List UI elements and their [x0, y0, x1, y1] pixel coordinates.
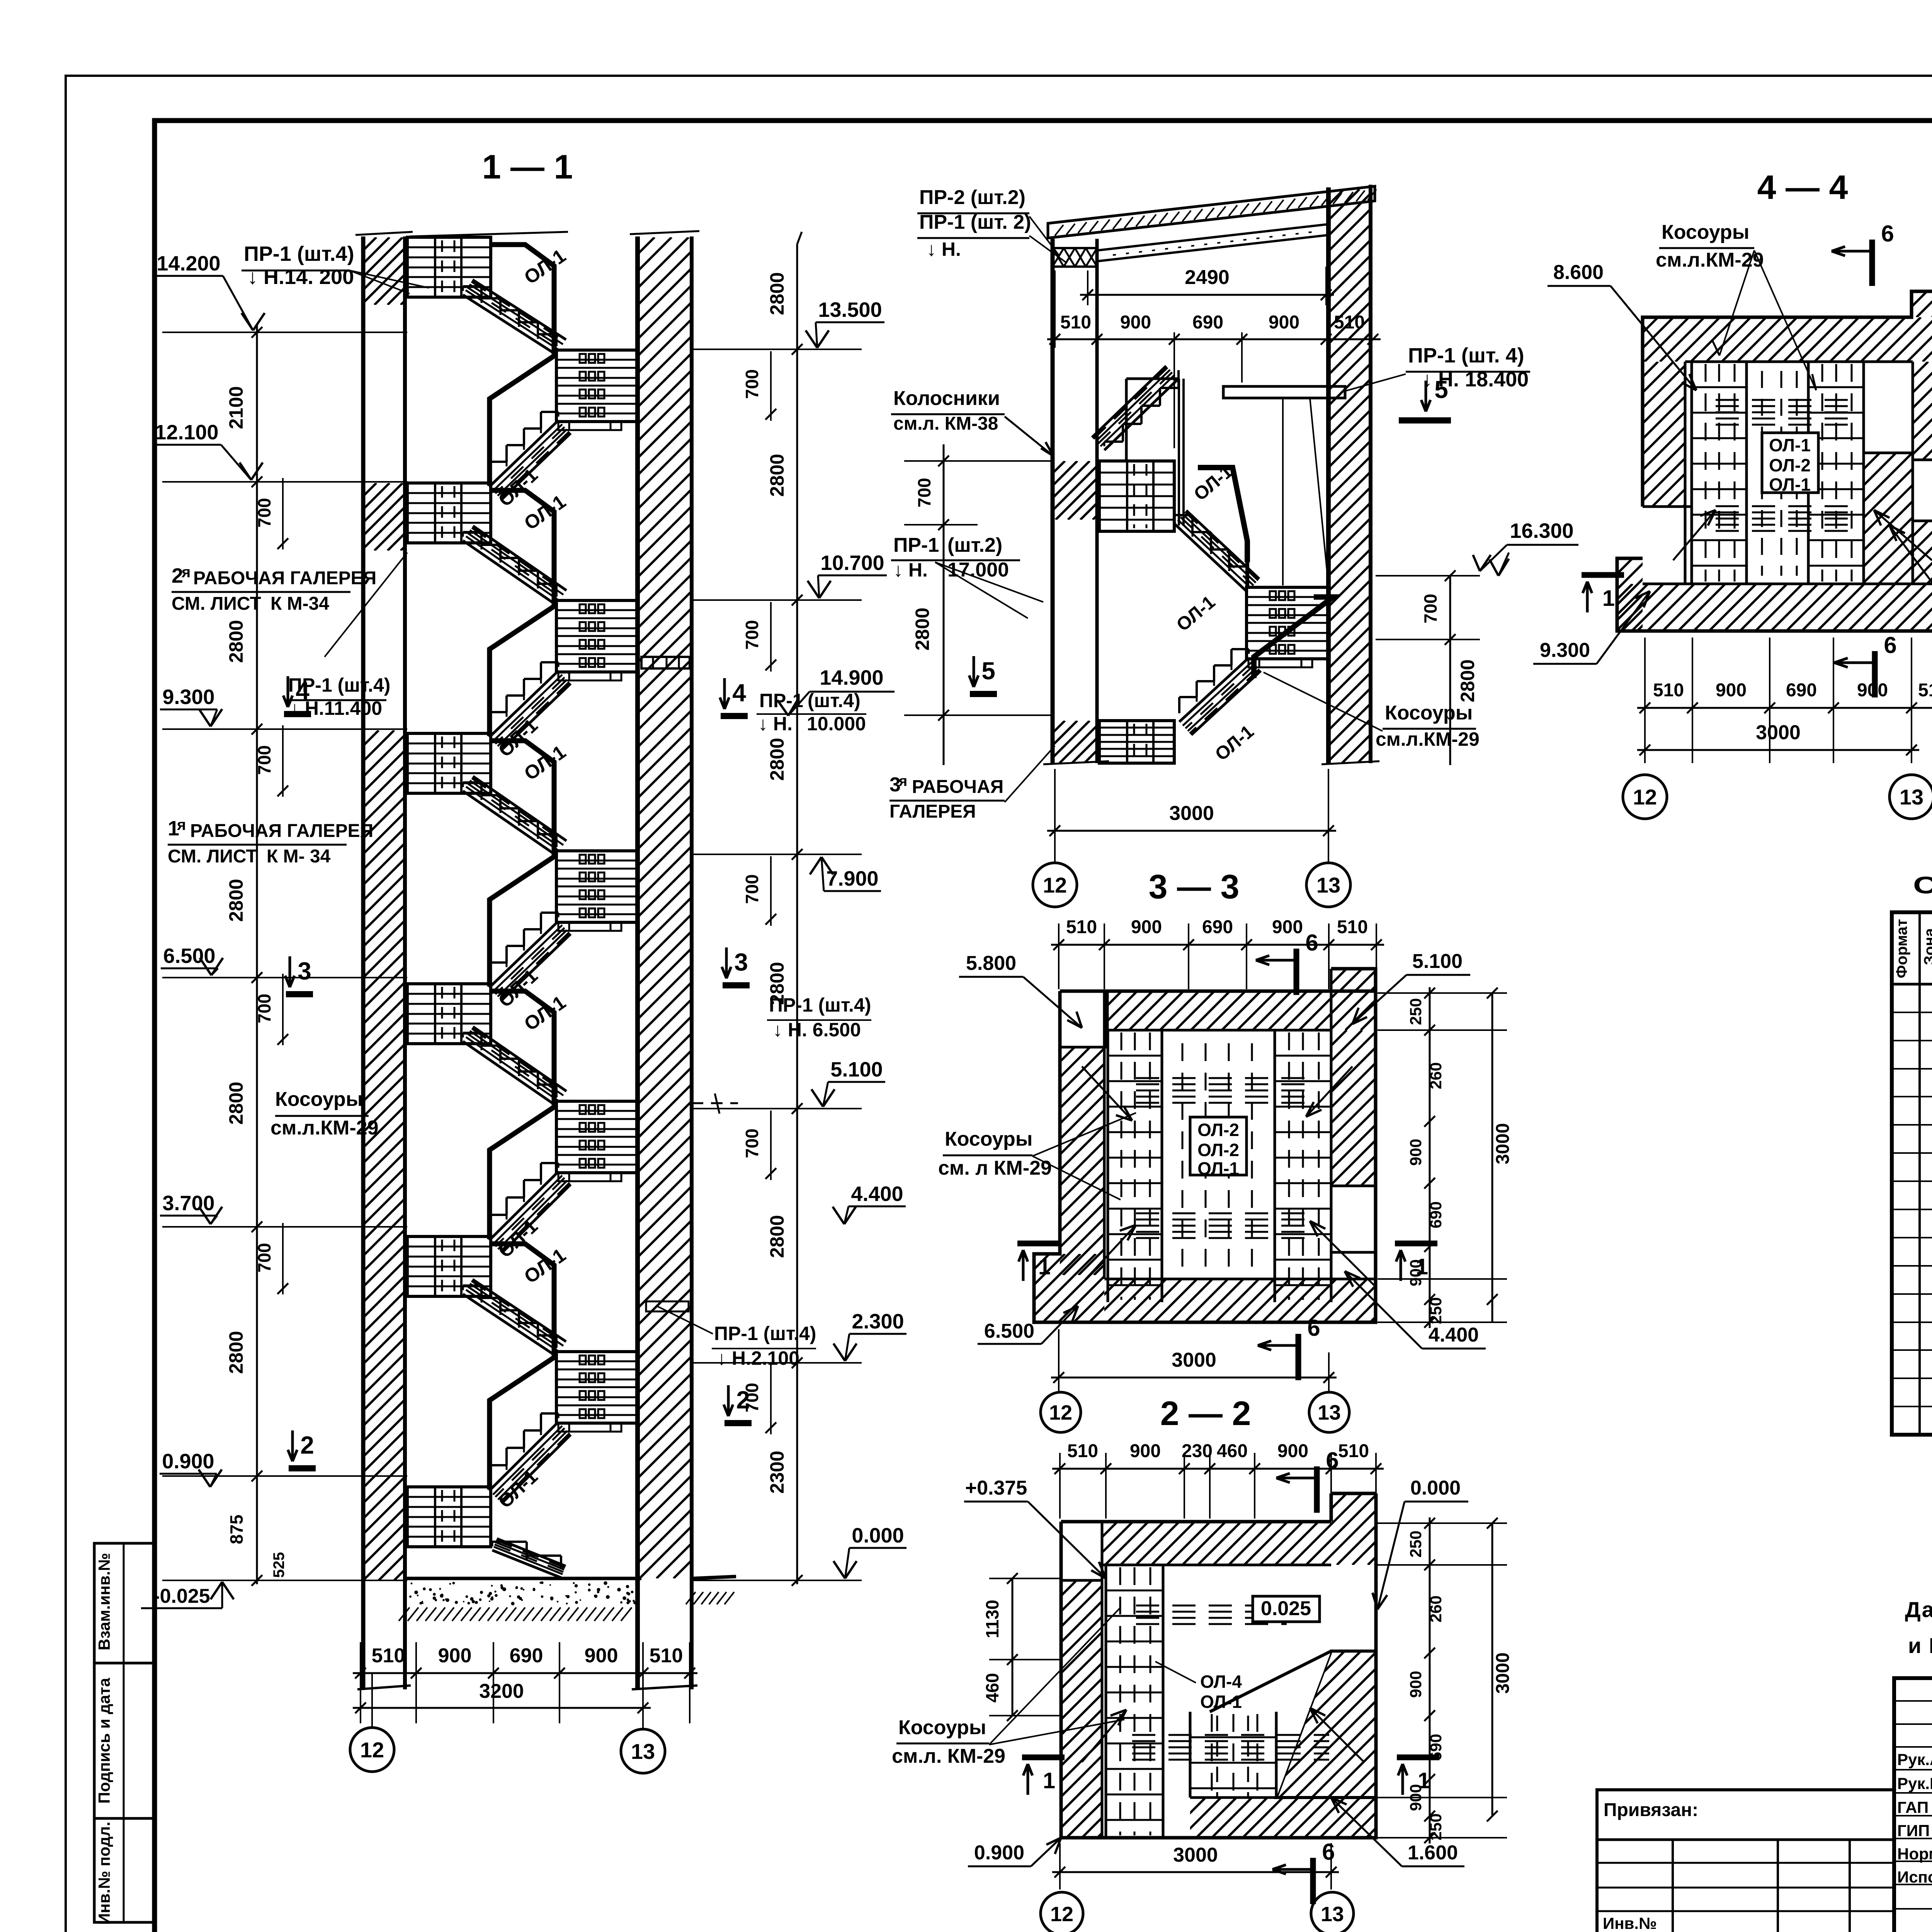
svg-text:см. л КМ-29: см. л КМ-29 — [938, 1157, 1052, 1179]
svg-text:510: 510 — [1067, 1441, 1098, 1461]
svg-text:4: 4 — [296, 677, 310, 705]
svg-text:510: 510 — [650, 1645, 683, 1667]
svg-text:я: я — [898, 773, 907, 789]
svg-text:РАБОЧАЯ ГАЛЕРЕЯ: РАБОЧАЯ ГАЛЕРЕЯ — [190, 821, 373, 841]
plan 2-2 interior leader arrows — [1082, 1066, 1132, 1121]
svg-text:1: 1 — [1043, 1768, 1055, 1793]
svg-text:2800: 2800 — [225, 1331, 247, 1374]
svg-text:690: 690 — [1427, 1201, 1445, 1228]
svg-text:ОЛ-1: ОЛ-1 — [1197, 1158, 1239, 1179]
svg-text:700: 700 — [742, 369, 762, 399]
16.300 leader arrow to 3-3 landing level — [1498, 553, 1509, 576]
svg-text:2: 2 — [736, 1386, 750, 1414]
svg-text:690: 690 — [1202, 917, 1233, 937]
svg-text:2 — 2: 2 — 2 — [1160, 1394, 1251, 1432]
svg-text:1.600: 1.600 — [1408, 1842, 1458, 1864]
svg-text:ОЛ-1: ОЛ-1 — [1769, 435, 1811, 455]
svg-text:↓ Н.: ↓ Н. — [893, 559, 928, 581]
svg-text:Данный чертеж рассматриват: Данный чертеж рассматривать совместно с … — [1905, 1597, 1932, 1622]
section 3-3 landing blocks — [1099, 461, 1174, 531]
plan 2-2 outline — [1107, 991, 1376, 1047]
svg-text:см.л.КМ-29: см.л.КМ-29 — [1656, 249, 1764, 271]
svg-text:3: 3 — [298, 957, 311, 985]
svg-text:13: 13 — [631, 1739, 655, 1764]
small ledge marks at gallery levels — [641, 657, 690, 668]
svg-text:ОЛ-2: ОЛ-2 — [1769, 455, 1811, 475]
title block staff table — [1894, 1678, 1932, 1932]
axis circle 12 section 1-1 — [350, 1728, 394, 1772]
svg-text:3.700: 3.700 — [162, 1192, 214, 1215]
plan 4-4 bottom dims — [1644, 638, 1646, 763]
svg-text:12: 12 — [1050, 1903, 1073, 1926]
svg-text:250: 250 — [1427, 1297, 1445, 1324]
svg-text:900: 900 — [1406, 1671, 1425, 1698]
svg-text:2490: 2490 — [1185, 266, 1230, 289]
svg-text:Рук.КБ-1: Рук.КБ-1 — [1897, 1774, 1932, 1793]
plan bottom top dim row — [1059, 1453, 1061, 1519]
svg-text:ГАП: ГАП — [1897, 1798, 1929, 1816]
svg-text:см.л. КМ-38: см.л. КМ-38 — [893, 413, 998, 434]
svg-text:К М- 34: К М- 34 — [267, 846, 331, 867]
section 1-1 bottom dimensions — [360, 1642, 361, 1723]
roof lower plate PR-2 — [1097, 224, 1329, 261]
svg-text:10.700: 10.700 — [820, 551, 884, 575]
svg-text:см.л.КМ-29: см.л.КМ-29 — [270, 1117, 379, 1139]
svg-text:5.100: 5.100 — [830, 1058, 883, 1081]
svg-text:3200: 3200 — [479, 1680, 524, 1702]
svg-text:РАБОЧАЯ ГАЛЕРЕЯ: РАБОЧАЯ ГАЛЕРЕЯ — [193, 568, 376, 588]
ground line and earth — [405, 1577, 641, 1580]
svg-text:9.300: 9.300 — [1540, 639, 1590, 662]
svg-text:0.900: 0.900 — [162, 1450, 214, 1473]
svg-text:700: 700 — [254, 994, 274, 1024]
svg-text:900: 900 — [1131, 917, 1162, 937]
svg-text:4.400: 4.400 — [1429, 1324, 1479, 1346]
plan bottom marks — [1314, 1466, 1320, 1513]
svg-text:700: 700 — [742, 874, 762, 904]
plan bottom dim 3000 and circles — [1059, 1843, 1061, 1889]
svg-text:700: 700 — [742, 620, 762, 650]
svg-text:1130: 1130 — [982, 1600, 1002, 1638]
svg-text:↓ Н.: ↓ Н. — [758, 713, 793, 735]
svg-text:Подпись и дата: Подпись и дата — [95, 1678, 113, 1804]
svg-text:ПР-1: ПР-1 — [893, 534, 939, 556]
svg-text:510: 510 — [1060, 312, 1091, 333]
svg-text:2.300: 2.300 — [852, 1310, 904, 1333]
svg-text:260: 260 — [1427, 1062, 1445, 1089]
plan bottom right chain — [1378, 1522, 1507, 1524]
plan 4-4 stair strips — [1690, 362, 1693, 584]
svg-text:700: 700 — [254, 1243, 274, 1273]
svg-text:510: 510 — [1653, 680, 1684, 701]
svg-text:690: 690 — [510, 1645, 543, 1667]
700 sub dimensions left — [282, 478, 284, 549]
svg-text:Исполн.: Исполн. — [1897, 1868, 1932, 1886]
svg-text:0.025: 0.025 — [1261, 1597, 1311, 1620]
plan 2-2 stair strips — [1107, 1030, 1109, 1302]
svg-text:1: 1 — [1038, 1254, 1051, 1279]
svg-text:460: 460 — [982, 1673, 1002, 1703]
section 3-3 dim row 510-900-690-900-510 — [1047, 338, 1381, 340]
axis circles 3-3 — [1033, 863, 1077, 907]
svg-text:4.400: 4.400 — [851, 1182, 903, 1206]
svg-text:1 — 1: 1 — 1 — [482, 148, 573, 186]
plan 2-2 right chain — [1378, 992, 1507, 994]
svg-text:Косоуры: Косоуры — [945, 1128, 1032, 1150]
svg-text:510: 510 — [1066, 917, 1097, 937]
left landings section 1-1 — [407, 237, 491, 297]
svg-text:7.900: 7.900 — [826, 867, 878, 890]
section 3-3 bottom break line — [1043, 761, 1109, 764]
svg-text:ГАЛЕРЕЯ: ГАЛЕРЕЯ — [889, 801, 976, 822]
svg-text:13.500: 13.500 — [818, 298, 882, 321]
svg-text:ОЛ-2: ОЛ-2 — [1197, 1140, 1239, 1160]
svg-text:700: 700 — [914, 478, 934, 508]
svg-text:250: 250 — [1427, 1813, 1445, 1840]
plan 2-2 bottom dim 3000 — [1058, 1329, 1060, 1391]
svg-text:260: 260 — [1427, 1595, 1445, 1622]
svg-text:Косоуры: Косоуры — [1385, 702, 1473, 724]
svg-text:Формат: Формат — [1893, 919, 1910, 978]
svg-text:5.100: 5.100 — [1412, 950, 1463, 973]
svg-text:250: 250 — [1406, 998, 1425, 1025]
svg-text:6.500: 6.500 — [984, 1320, 1034, 1342]
spec table frame — [1892, 912, 1932, 1435]
svg-text:Спецификация расхода материа: Спецификация расхода материалов на элеме… — [1913, 872, 1932, 899]
svg-text:6: 6 — [1322, 1839, 1335, 1865]
section 3-3 upper cut flight verticals — [1178, 379, 1180, 526]
svg-text:2800: 2800 — [766, 454, 788, 497]
svg-text:2800: 2800 — [766, 272, 788, 315]
svg-text:2800: 2800 — [225, 620, 247, 663]
svg-text:690: 690 — [1786, 680, 1817, 701]
svg-text:16.300: 16.300 — [1510, 519, 1573, 543]
svg-text:12: 12 — [360, 1738, 384, 1762]
svg-text:4: 4 — [732, 679, 746, 707]
svg-text:↓ Н.2.100: ↓ Н.2.100 — [717, 1347, 799, 1369]
svg-text:ОЛ-4: ОЛ-4 — [1200, 1672, 1242, 1692]
svg-text:4 — 4: 4 — 4 — [1757, 168, 1848, 206]
svg-text:Инв.№: Инв.№ — [1603, 1914, 1657, 1932]
svg-text:ПР-1 (шт. 4): ПР-1 (шт. 4) — [1408, 344, 1524, 367]
svg-text:510: 510 — [1918, 680, 1932, 701]
svg-text:Инв.№ подл.: Инв.№ подл. — [95, 1821, 113, 1925]
svg-text:2800: 2800 — [225, 1082, 247, 1124]
section 3-3 right dim chain — [1449, 576, 1451, 765]
svg-text:СМ. ЛИСТ: СМ. ЛИСТ — [168, 846, 257, 867]
svg-text:2800: 2800 — [225, 879, 247, 922]
svg-text:я: я — [181, 564, 190, 581]
svg-text:900: 900 — [1857, 680, 1888, 701]
svg-text:900: 900 — [1272, 917, 1303, 937]
right landings section 1-1 — [556, 350, 638, 422]
section 3-3 right wall — [1326, 187, 1331, 763]
svg-text:8.600: 8.600 — [1553, 261, 1604, 284]
svg-text:6: 6 — [1326, 1447, 1338, 1473]
svg-text:900: 900 — [438, 1645, 472, 1667]
plan bottom interior leaders — [1082, 1710, 1126, 1762]
plan 4-4 marks — [1869, 240, 1875, 286]
section 3-3 top dim 2490 — [1087, 270, 1088, 305]
svg-text:6: 6 — [1307, 1315, 1320, 1341]
svg-text:6: 6 — [1881, 221, 1894, 247]
svg-text:Привязан:: Привязан: — [1604, 1800, 1698, 1820]
right dimension chain section 1-1 — [796, 244, 798, 1584]
svg-text:ОЛ-2: ОЛ-2 — [1197, 1120, 1239, 1140]
svg-text:2800: 2800 — [912, 607, 933, 650]
svg-text:СМ. ЛИСТ: СМ. ЛИСТ — [172, 594, 261, 614]
svg-text:3000: 3000 — [1493, 1123, 1513, 1165]
svg-text:Косоуры: Косоуры — [1662, 221, 1749, 243]
svg-text:Зона: Зона — [1921, 928, 1932, 965]
svg-text:6.500: 6.500 — [163, 944, 215, 968]
svg-text:510: 510 — [1337, 917, 1368, 937]
svg-text:510: 510 — [1338, 1441, 1369, 1461]
section 3-3 bottom dim 3000 — [1054, 769, 1056, 862]
plan 2-2 marks — [1294, 949, 1299, 995]
railings OL-1 section 1-1 zigzag — [490, 245, 554, 486]
left margin stamp boxes — [94, 1543, 153, 1922]
svg-text:690: 690 — [1192, 312, 1223, 333]
svg-text:1: 1 — [1416, 1254, 1428, 1279]
svg-text:ПР-1 (шт. 2): ПР-1 (шт. 2) — [919, 211, 1031, 233]
svg-text:3000: 3000 — [1172, 1349, 1216, 1371]
svg-text:0.900: 0.900 — [974, 1842, 1024, 1864]
svg-text:ПР-2 (шт.2): ПР-2 (шт.2) — [919, 186, 1026, 209]
svg-text:900: 900 — [1277, 1441, 1308, 1461]
plan 4-4 center label box — [1762, 433, 1818, 493]
svg-text:1: 1 — [1602, 586, 1615, 611]
svg-text:900: 900 — [585, 1645, 618, 1667]
svg-text:↓ Н.14. 200: ↓ Н.14. 200 — [247, 265, 354, 289]
plan 2-2 axis circles — [1041, 1392, 1081, 1432]
svg-text:3000: 3000 — [1493, 1653, 1513, 1694]
svg-text:3000: 3000 — [1173, 1844, 1218, 1866]
svg-text:(шт.2): (шт.2) — [947, 534, 1002, 556]
svg-text:ОЛ-1: ОЛ-1 — [1200, 1692, 1242, 1712]
svg-text:2800: 2800 — [766, 738, 788, 781]
svg-text:РАБОЧАЯ: РАБОЧАЯ — [912, 777, 1003, 797]
svg-text:14.900: 14.900 — [820, 666, 883, 689]
svg-text:700: 700 — [254, 498, 274, 528]
svg-text:Колосники: Колосники — [893, 387, 1000, 410]
plan bottom outline — [1061, 1493, 1376, 1838]
section 3-3 railings — [1198, 468, 1247, 562]
svg-text:Рук.АБ-1: Рук.АБ-1 — [1897, 1750, 1932, 1769]
svg-text:↓ Н. 6.500: ↓ Н. 6.500 — [773, 1019, 861, 1041]
svg-text:250: 250 — [1406, 1531, 1425, 1558]
section 1-1 right wall — [635, 236, 640, 1689]
svg-text:3000: 3000 — [1169, 802, 1214, 825]
svg-text:510: 510 — [372, 1645, 405, 1667]
plan bottom right stair trapezoid — [1276, 1651, 1376, 1798]
svg-text:13: 13 — [1318, 1401, 1341, 1424]
flights section 1-1 — [463, 295, 556, 355]
svg-text:6: 6 — [1305, 930, 1318, 956]
svg-text:900: 900 — [1120, 312, 1151, 333]
svg-text:3: 3 — [734, 948, 748, 976]
section 3-3 upper landing plate PR-1 — [1223, 386, 1345, 398]
svg-text:5.800: 5.800 — [966, 952, 1016, 975]
svg-text:12: 12 — [1043, 873, 1067, 897]
svg-text:+0.375: +0.375 — [965, 1477, 1027, 1499]
svg-text:12: 12 — [1049, 1401, 1072, 1424]
svg-text:700: 700 — [1420, 594, 1440, 624]
svg-text:↓ Н. 18.400: ↓ Н. 18.400 — [1422, 368, 1529, 391]
plan bottom left dims 1130 460 — [1012, 1578, 1014, 1716]
svg-text:900: 900 — [1716, 680, 1747, 701]
svg-text:2800: 2800 — [766, 1215, 788, 1258]
svg-text:900: 900 — [1406, 1139, 1425, 1166]
svg-text:900: 900 — [1269, 312, 1299, 333]
svg-text:14.200: 14.200 — [156, 252, 220, 275]
svg-text:ГИП: ГИП — [1897, 1821, 1930, 1840]
svg-text:2300: 2300 — [766, 1451, 788, 1493]
plan bottom diagonal edge — [1210, 1651, 1331, 1712]
section 3-3 flights — [1174, 524, 1247, 592]
svg-text:↓ Н.: ↓ Н. — [927, 238, 961, 260]
svg-text:Взам.инв.№: Взам.инв.№ — [95, 1553, 113, 1650]
plan 2-2 center label box — [1190, 1117, 1247, 1175]
svg-text:525: 525 — [270, 1552, 287, 1578]
svg-text:12.100: 12.100 — [155, 421, 218, 444]
svg-text:ПР-1 (шт.4): ПР-1 (шт.4) — [714, 1323, 816, 1344]
svg-text:230: 230 — [1182, 1441, 1213, 1461]
svg-text:ОЛ-1: ОЛ-1 — [1769, 474, 1811, 495]
svg-text:ПР-1 (шт.4): ПР-1 (шт.4) — [769, 994, 871, 1016]
svg-text:ПР-1 (шт.4): ПР-1 (шт.4) — [244, 242, 354, 265]
svg-text:900: 900 — [1130, 1441, 1161, 1461]
svg-text:см.л.КМ-29: см.л.КМ-29 — [1376, 728, 1480, 750]
svg-text:ПР-1: ПР-1 — [759, 690, 803, 711]
svg-text:см.л. КМ-29: см.л. КМ-29 — [892, 1745, 1005, 1767]
section 3-3 left wall — [1051, 239, 1055, 763]
axis circle 13 section 1-1 — [621, 1729, 665, 1773]
left dimension chain section 1-1 — [256, 325, 258, 1584]
svg-text:875: 875 — [226, 1515, 247, 1544]
svg-text:0.000: 0.000 — [1410, 1477, 1461, 1499]
svg-text:3000: 3000 — [1756, 721, 1801, 744]
plan bottom 0.025 box — [1253, 1596, 1320, 1622]
svg-text:10.000: 10.000 — [807, 713, 866, 735]
svg-text:я: я — [177, 816, 186, 833]
svg-text:13: 13 — [1321, 1903, 1344, 1926]
section 3-3 left dim chain — [943, 444, 945, 765]
plan 4-4 outline — [1617, 291, 1932, 631]
svg-text:700: 700 — [742, 1129, 762, 1158]
plan bottom stair strips — [1105, 1565, 1107, 1838]
svg-text:и КМ-30: и КМ-30 — [1908, 1633, 1932, 1658]
svg-text:6: 6 — [1884, 632, 1896, 658]
svg-text:460: 460 — [1217, 1441, 1248, 1461]
svg-text:2: 2 — [300, 1431, 314, 1459]
svg-text:13: 13 — [1900, 785, 1923, 809]
svg-text:2800: 2800 — [1457, 659, 1478, 702]
privyazan table — [1597, 1790, 1894, 1932]
wall top break marks — [355, 232, 413, 235]
svg-text:Норм.кон.: Норм.кон. — [1897, 1845, 1932, 1863]
svg-text:1: 1 — [1418, 1768, 1430, 1793]
svg-text:2100: 2100 — [225, 386, 247, 429]
svg-text:(шт.4): (шт.4) — [808, 690, 861, 711]
svg-text:12: 12 — [1633, 785, 1657, 809]
section 3-3 roof slab — [1048, 186, 1375, 238]
svg-text:Косоуры: Косоуры — [898, 1716, 986, 1739]
svg-text:0.000: 0.000 — [852, 1524, 904, 1547]
svg-text:Косоуры: Косоуры — [275, 1088, 363, 1111]
plan 4-4 interior leaders — [1673, 510, 1716, 560]
plan 4-4 axis circles 12 13 — [1623, 775, 1667, 819]
bottom ground flight — [492, 1550, 561, 1578]
plan 2-2 top dimension row — [1058, 923, 1060, 989]
svg-text:9.300: 9.300 — [162, 685, 214, 709]
svg-text:К М-34: К М-34 — [270, 594, 329, 614]
section 3-3 left wall seat blocks — [1053, 248, 1097, 267]
svg-text:700: 700 — [254, 745, 274, 775]
svg-text:5: 5 — [981, 657, 995, 685]
svg-text:510: 510 — [1334, 312, 1365, 333]
section 1-1 left wall — [361, 236, 366, 1689]
wall bottom break marks — [357, 1685, 411, 1689]
svg-text:-0.025: -0.025 — [153, 1585, 210, 1607]
svg-text:13: 13 — [1316, 873, 1340, 897]
svg-text:3 — 3: 3 — 3 — [1149, 867, 1240, 906]
